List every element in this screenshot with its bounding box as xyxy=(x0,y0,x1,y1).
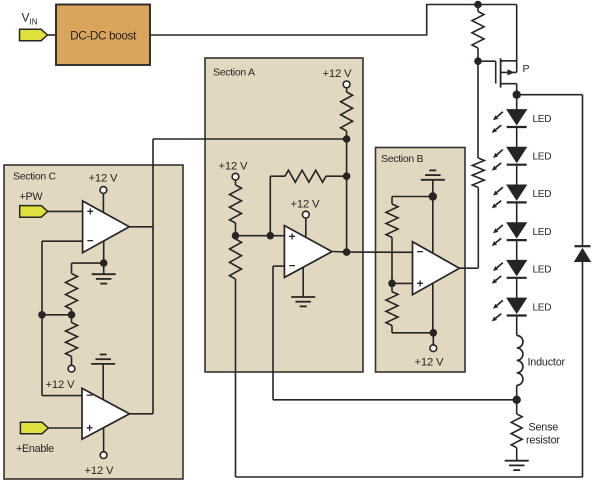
svg-text:LED: LED xyxy=(533,189,552,200)
svg-text:−: − xyxy=(86,390,93,402)
svg-text:LED: LED xyxy=(533,152,552,163)
svg-text:+12 V: +12 V xyxy=(415,357,445,369)
svg-text:Sense: Sense xyxy=(529,422,559,434)
svg-text:+12 V: +12 V xyxy=(46,379,76,391)
svg-text:Section C: Section C xyxy=(13,171,57,183)
svg-text:+: + xyxy=(417,278,424,290)
svg-text:P: P xyxy=(523,63,530,75)
svg-text:Inductor: Inductor xyxy=(528,357,566,369)
svg-text:+: + xyxy=(86,423,93,435)
svg-text:+Enable: +Enable xyxy=(16,443,54,455)
svg-text:LED: LED xyxy=(533,265,552,276)
svg-text:+PW: +PW xyxy=(20,191,44,203)
svg-text:Section B: Section B xyxy=(381,153,424,165)
svg-text:−: − xyxy=(289,260,296,272)
svg-text:+: + xyxy=(289,232,296,244)
svg-text:resistor: resistor xyxy=(526,435,560,447)
svg-text:DC-DC boost: DC-DC boost xyxy=(70,29,137,43)
svg-text:LED: LED xyxy=(533,227,552,238)
svg-text:+12 V: +12 V xyxy=(89,173,119,185)
svg-text:+12 V: +12 V xyxy=(85,465,115,477)
svg-text:LED: LED xyxy=(533,114,552,125)
svg-text:−: − xyxy=(417,247,424,259)
svg-text:Section A: Section A xyxy=(213,67,255,79)
svg-text:+: + xyxy=(87,206,94,218)
svg-text:−: − xyxy=(87,236,94,248)
svg-text:+12 V: +12 V xyxy=(291,199,321,211)
svg-text:+12 V: +12 V xyxy=(323,68,353,80)
svg-text:+12 V: +12 V xyxy=(219,161,249,173)
svg-text:LED: LED xyxy=(533,302,552,313)
